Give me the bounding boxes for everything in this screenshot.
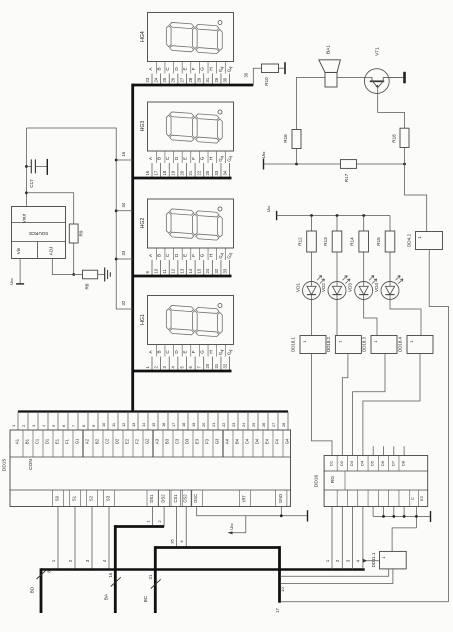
svg-text:R9: R9 — [79, 230, 84, 236]
svg-text:F2: F2 — [135, 438, 140, 444]
svg-text:BA: BA — [104, 593, 109, 600]
svg-text:Vout: Vout — [22, 213, 27, 223]
wire S3 stub — [108, 507, 110, 570]
svg-text:D7: D7 — [390, 460, 395, 466]
svg-text:21: 21 — [188, 170, 193, 175]
wire R14 to VD3 — [363, 252, 365, 281]
svg-text:OSC: OSC — [193, 494, 198, 503]
svg-text:CON: CON — [28, 459, 34, 470]
svg-text:GND: GND — [278, 494, 283, 503]
IC DD16 box — [324, 456, 428, 507]
display HG2 digit — [166, 209, 222, 241]
svg-text:Ucc: Ucc — [9, 278, 14, 285]
svg-text:23: 23 — [145, 77, 150, 82]
svg-text:22: 22 — [221, 423, 226, 427]
display HG1 box — [148, 296, 234, 345]
svg-text:21: 21 — [211, 423, 216, 427]
svg-text:DS1: DS1 — [149, 494, 154, 503]
wire Vout top loop to bus rail — [26, 128, 116, 309]
svg-text:14: 14 — [188, 268, 193, 273]
svg-text:BC: BC — [143, 595, 148, 602]
bus BA horizontal — [115, 525, 164, 528]
display HG2 letter cell dividers — [155, 248, 157, 260]
svg-text:F: F — [191, 350, 196, 353]
svg-text:D6: D6 — [380, 460, 385, 466]
svg-text:E: E — [182, 350, 187, 353]
display HG2 box — [148, 199, 234, 248]
svg-text:H: H — [208, 254, 213, 257]
bus BC horizontal — [155, 546, 279, 549]
svg-text:R14: R14 — [350, 237, 355, 246]
svg-text:31: 31 — [205, 77, 210, 82]
svg-text:E: E — [182, 254, 187, 257]
wire Uvx input rail — [264, 163, 341, 165]
svg-text:S3: S3 — [106, 495, 111, 501]
svg-text:S1: S1 — [72, 495, 77, 501]
bus BA vertical — [114, 525, 117, 613]
wire Ucc drop near IRT — [228, 516, 246, 533]
display HG4 box — [148, 13, 234, 62]
svg-text:R17: R17 — [344, 173, 349, 182]
svg-text:30: 30 — [244, 72, 249, 77]
resistor R9 — [69, 224, 78, 243]
speaker BA1 — [325, 72, 337, 87]
resistor R13 — [336, 216, 338, 232]
terminal bar VT1 collector — [403, 72, 406, 84]
wire S0 stub — [57, 507, 59, 570]
svg-text:DD18.1: DD18.1 — [291, 337, 296, 352]
display HG1 decimal point — [218, 304, 222, 308]
svg-text:35: 35 — [170, 539, 175, 544]
terminal Uvx bar — [263, 159, 265, 170]
capacitor C17 — [26, 165, 31, 167]
display HG3 letter cell dividers — [155, 151, 157, 163]
IC DD15 box — [10, 430, 291, 507]
svg-text:17: 17 — [153, 170, 158, 175]
svg-text:9: 9 — [91, 425, 96, 427]
svg-text:F4: F4 — [275, 438, 280, 444]
svg-text:R12: R12 — [298, 237, 303, 246]
svg-text:F: F — [191, 67, 196, 70]
svg-text:G: G — [200, 253, 205, 257]
bus BA slash and width 16 — [111, 577, 121, 586]
svg-text:E3: E3 — [195, 438, 200, 444]
wire to DD4.2 — [405, 164, 427, 232]
svg-text:19: 19 — [171, 170, 176, 175]
bus tap 4 corner — [116, 308, 133, 310]
svg-text:8: 8 — [81, 425, 86, 427]
svg-text:B: B — [157, 350, 162, 353]
display HG3 box — [148, 102, 234, 151]
node LED rail 1 — [310, 214, 313, 217]
wire Vin to Ucc terminal — [19, 259, 21, 284]
wire VD3 to DD18.3 — [364, 300, 377, 336]
svg-text:D5: D5 — [370, 460, 375, 466]
svg-text:20: 20 — [205, 363, 210, 368]
node Vout/C17 — [25, 165, 28, 168]
svg-text:32: 32 — [214, 268, 219, 273]
svg-text:BD: BD — [30, 586, 35, 593]
svg-text:33: 33 — [214, 170, 219, 175]
svg-text:34: 34 — [222, 170, 227, 175]
DD15 segment pin cells — [22, 430, 24, 457]
svg-text:F: F — [191, 157, 196, 160]
DD16 cell dividers — [336, 456, 338, 472]
wire R16 riser to speaker rail — [296, 149, 298, 165]
svg-text:B: B — [157, 67, 162, 70]
svg-text:G: G — [200, 156, 205, 160]
svg-text:17: 17 — [275, 608, 280, 613]
svg-text:G: G — [200, 350, 205, 354]
wire HG4 bus to R10 — [253, 68, 261, 85]
DD16 unconnected input stubs — [372, 446, 374, 455]
svg-text:D4: D4 — [359, 460, 364, 466]
svg-text:DD4.2: DD4.2 — [407, 234, 412, 247]
svg-text:E: E — [182, 157, 187, 160]
node R16 bottom — [295, 163, 298, 166]
wire DD11.1 lower links — [281, 569, 389, 576]
svg-text:HG2: HG2 — [140, 218, 146, 229]
svg-text:R8: R8 — [85, 283, 90, 289]
bus tap 2 with node — [115, 209, 118, 212]
bus BD horizontal collector — [41, 568, 365, 570]
svg-text:B3: B3 — [165, 438, 170, 444]
wire VD4 to DD18.4 — [390, 300, 421, 336]
display HG1 digit — [166, 305, 222, 337]
gate DD4.2 box — [416, 232, 443, 250]
svg-text:25: 25 — [251, 423, 256, 427]
svg-text:ADJ: ADJ — [49, 247, 54, 256]
svg-text:18: 18 — [181, 423, 186, 427]
svg-text:DD11.1: DD11.1 — [371, 552, 376, 567]
wire DD4.2 output down right edge — [429, 250, 448, 602]
svg-text:26: 26 — [171, 77, 176, 82]
LED VD3 — [355, 282, 373, 300]
svg-text:25: 25 — [162, 77, 167, 82]
svg-text:10: 10 — [153, 268, 158, 273]
svg-text:12: 12 — [121, 423, 126, 427]
svg-text:13: 13 — [179, 268, 184, 273]
node LED rail 2 — [336, 214, 339, 217]
wire OSC rail — [197, 507, 308, 516]
gate DD18.2 box — [335, 336, 361, 354]
svg-text:16: 16 — [108, 572, 113, 577]
display HG4 letter cell dividers — [155, 62, 157, 74]
display HG3 pin stubs — [151, 163, 153, 178]
svg-text:DD18.3: DD18.3 — [362, 337, 367, 352]
svg-text:C4: C4 — [245, 438, 250, 444]
display HG1 pin stubs — [151, 357, 153, 372]
terminal bar GND rail — [307, 510, 309, 521]
wire DS1 stub — [152, 507, 154, 527]
DD15 segment pin stubs — [17, 412, 19, 431]
svg-text:33: 33 — [121, 250, 126, 255]
svg-text:B: B — [157, 157, 162, 160]
svg-text:A1: A1 — [15, 438, 20, 444]
svg-text:2: 2 — [21, 425, 26, 427]
svg-text:28: 28 — [281, 423, 286, 427]
svg-text:R15: R15 — [376, 237, 381, 246]
bus BD vertical — [40, 568, 43, 613]
display HG3 digit — [166, 112, 222, 144]
svg-text:13: 13 — [131, 423, 136, 427]
svg-text:B: B — [157, 254, 162, 257]
gate DD18.3 box — [371, 336, 397, 354]
svg-text:F: F — [191, 254, 196, 257]
svg-text:1: 1 — [11, 425, 16, 427]
svg-text:G: G — [200, 67, 205, 71]
svg-text:11: 11 — [111, 423, 116, 427]
display HG4 decimal point — [218, 21, 222, 25]
resistor R17 — [341, 160, 357, 169]
display HG4 segment bus — [133, 84, 254, 87]
svg-text:15: 15 — [197, 268, 202, 273]
svg-text:D1: D1 — [329, 460, 334, 466]
svg-text:S2: S2 — [89, 495, 94, 501]
resistor R14 — [363, 216, 365, 232]
svg-text:3: 3 — [31, 425, 36, 427]
svg-text:Uвх: Uвх — [261, 151, 266, 158]
svg-text:DD16: DD16 — [314, 475, 320, 488]
resistor R16 — [292, 130, 301, 149]
svg-text:CS2: CS2 — [183, 494, 188, 503]
svg-text:B2: B2 — [95, 438, 100, 444]
svg-text:B1: B1 — [25, 438, 30, 444]
svg-text:17: 17 — [171, 423, 176, 427]
display HG1 letter cell dividers — [155, 345, 157, 357]
display HG4 pin stubs — [151, 74, 153, 86]
DD16 output pins 5-8 rail — [372, 507, 374, 517]
wire R12 to VD1 — [311, 252, 313, 281]
resistor R10 — [262, 64, 279, 73]
svg-text:20: 20 — [179, 170, 184, 175]
svg-text:19: 19 — [191, 423, 196, 427]
svg-text:26: 26 — [214, 77, 219, 82]
wire VD2 to DD18.2 — [336, 300, 338, 336]
wire R8 to ground — [98, 274, 105, 276]
svg-text:DD18.4: DD18.4 — [398, 337, 403, 352]
svg-text:VD2: VD2 — [321, 283, 326, 292]
svg-text:25: 25 — [205, 170, 210, 175]
svg-text:H: H — [208, 350, 213, 353]
svg-text:B4: B4 — [235, 438, 240, 444]
svg-text:6: 6 — [61, 425, 66, 427]
svg-text:32: 32 — [121, 300, 126, 305]
wire CS2 stub — [185, 507, 187, 548]
svg-text:CS1: CS1 — [173, 494, 178, 503]
svg-text:IRT: IRT — [242, 495, 247, 502]
terminal bar DD16 rail — [430, 511, 432, 522]
svg-text:C1: C1 — [35, 438, 40, 444]
svg-text:31: 31 — [214, 363, 219, 368]
gate DD11.1 box — [380, 551, 407, 569]
resistor R8 — [83, 270, 98, 279]
svg-text:C17: C17 — [29, 179, 34, 188]
wire Ucc LED rail — [277, 215, 390, 217]
svg-text:E: E — [182, 67, 187, 70]
svg-text:HG3: HG3 — [140, 121, 146, 132]
svg-text:Ucc: Ucc — [229, 523, 234, 530]
wire VD1 to DD18.1 — [311, 300, 313, 336]
svg-text:7: 7 — [71, 425, 76, 427]
svg-text:21: 21 — [148, 574, 153, 579]
wire DS2 stub — [163, 507, 165, 527]
wire bottom long link — [281, 601, 449, 603]
resistor R12 — [311, 216, 313, 232]
gate DD18.1 box — [300, 336, 326, 354]
LED VD1 — [303, 282, 321, 300]
svg-text:D2: D2 — [115, 438, 120, 444]
svg-text:HG4: HG4 — [140, 31, 146, 42]
main vertical segment bus — [131, 84, 134, 412]
terminal bar X1 — [284, 62, 286, 74]
svg-text:SOURCE: SOURCE — [29, 231, 49, 236]
display HG3 decimal point — [218, 110, 222, 114]
bus tap 3 with node — [115, 258, 118, 261]
svg-text:E2: E2 — [419, 495, 424, 501]
display HG1 segment bus — [133, 370, 232, 373]
svg-text:VT1: VT1 — [375, 47, 381, 56]
svg-text:D4: D4 — [255, 438, 260, 444]
svg-text:32: 32 — [222, 363, 227, 368]
svg-text:34: 34 — [121, 202, 126, 207]
svg-text:16: 16 — [145, 170, 150, 175]
svg-text:G4: G4 — [285, 438, 290, 444]
svg-text:24: 24 — [205, 268, 210, 273]
wire R18 to rail — [404, 148, 406, 165]
svg-text:E2: E2 — [125, 438, 130, 444]
svg-text:28: 28 — [188, 77, 193, 82]
ground after R8 — [104, 268, 106, 282]
resistor R18 — [400, 128, 409, 147]
DD15 pin fan bus line — [18, 410, 288, 412]
wire R15 to VD4 — [389, 252, 391, 281]
svg-text:G2: G2 — [145, 438, 150, 444]
LED VD2 — [328, 282, 346, 300]
node R18 bottom — [403, 163, 406, 166]
display HG2 decimal point — [218, 207, 222, 211]
wire CS1 stub — [176, 507, 178, 548]
wire speaker to VT1 base — [337, 76, 372, 78]
node ADJ/R8 — [72, 273, 75, 276]
svg-text:16: 16 — [121, 151, 126, 156]
svg-text:A2: A2 — [85, 438, 90, 444]
svg-text:C: C — [410, 497, 415, 500]
svg-text:HG1: HG1 — [140, 314, 146, 325]
svg-text:Ucc: Ucc — [266, 205, 271, 212]
svg-text:27: 27 — [179, 77, 184, 82]
bus BD slash and width 8 — [37, 570, 47, 579]
wire C/E2 to DD11.1 — [415, 507, 417, 528]
terminal Ucc bar — [16, 283, 24, 285]
svg-text:D3: D3 — [185, 438, 190, 444]
svg-text:11: 11 — [162, 268, 167, 273]
node LED rail 3 — [362, 214, 365, 217]
display HG2 segment bus — [133, 275, 232, 278]
svg-text:E4: E4 — [265, 438, 270, 444]
svg-text:24: 24 — [153, 77, 158, 82]
svg-text:D8: D8 — [401, 460, 406, 466]
svg-text:D3: D3 — [349, 460, 354, 466]
wire R9 to ADJ node — [73, 243, 75, 275]
svg-text:H: H — [208, 67, 213, 70]
wire S1 stub — [74, 507, 76, 570]
node GND stub — [280, 507, 282, 516]
svg-text:G1: G1 — [75, 438, 80, 444]
svg-text:27: 27 — [271, 423, 276, 427]
svg-text:R16: R16 — [283, 134, 288, 143]
svg-text:R18: R18 — [392, 134, 397, 143]
svg-text:12: 12 — [171, 268, 176, 273]
svg-text:VD1: VD1 — [295, 283, 300, 292]
node Vout/R9 — [25, 191, 28, 194]
svg-text:E1: E1 — [55, 438, 60, 444]
terminal bar C17 — [46, 159, 48, 175]
svg-text:DS2: DS2 — [161, 494, 166, 503]
DD16 output pins 1-4 to bus — [331, 507, 333, 570]
wire DD18.3 output to DD16 pin D3 — [353, 354, 385, 456]
wire ADJ stub — [52, 259, 82, 275]
svg-text:G3: G3 — [215, 438, 220, 444]
svg-text:RG: RG — [330, 476, 336, 483]
gate DD18.4 box — [407, 336, 433, 354]
svg-text:29: 29 — [197, 77, 202, 82]
bus BC slash and width 21 — [151, 579, 161, 588]
svg-text:16: 16 — [161, 423, 166, 427]
svg-text:22: 22 — [197, 170, 202, 175]
svg-text:D2: D2 — [339, 460, 344, 466]
wire Vout riser — [25, 128, 27, 207]
bus right vertical segment — [278, 546, 281, 603]
svg-text:C3: C3 — [175, 438, 180, 444]
regulator DA1 SOURCE box — [12, 207, 66, 259]
svg-text:33: 33 — [222, 268, 227, 273]
svg-text:A3: A3 — [155, 438, 160, 444]
svg-text:15: 15 — [151, 423, 156, 427]
svg-text:30: 30 — [222, 77, 227, 82]
resistor R15 — [389, 216, 391, 232]
svg-text:F3: F3 — [205, 438, 210, 444]
svg-text:A4: A4 — [225, 438, 230, 444]
display HG4 digit — [166, 22, 222, 54]
svg-text:26: 26 — [261, 423, 266, 427]
svg-text:5: 5 — [51, 425, 56, 427]
wire R13 to VD2 — [336, 252, 338, 281]
svg-text:VD4: VD4 — [374, 283, 379, 292]
LED VD4 — [381, 282, 399, 300]
svg-text:R13: R13 — [323, 237, 328, 246]
DD15 control pin cells — [51, 490, 53, 507]
svg-text:10: 10 — [280, 587, 285, 592]
svg-text:VD3: VD3 — [348, 283, 353, 292]
svg-text:H: H — [208, 157, 213, 160]
bus BC vertical — [154, 546, 157, 613]
display HG2 pin stubs — [151, 260, 153, 276]
wire VT1 emitter to R18 — [378, 88, 405, 129]
svg-text:DD18.2: DD18.2 — [326, 337, 331, 352]
svg-text:S0: S0 — [55, 495, 60, 501]
svg-text:D1: D1 — [45, 438, 50, 444]
display HG3 segment bus — [133, 177, 232, 180]
bus tap 1 with node — [115, 159, 118, 162]
svg-text:23: 23 — [231, 423, 236, 427]
svg-text:18: 18 — [162, 170, 167, 175]
wire R17 to R18 node — [357, 163, 405, 165]
wire DD18.1 output to DD16 pin D1 — [312, 354, 333, 456]
wire DD18.4 output to DD16 pin D4 — [363, 354, 420, 456]
terminal Ucc LED rail — [276, 211, 278, 220]
transistor VT1 — [364, 69, 389, 94]
